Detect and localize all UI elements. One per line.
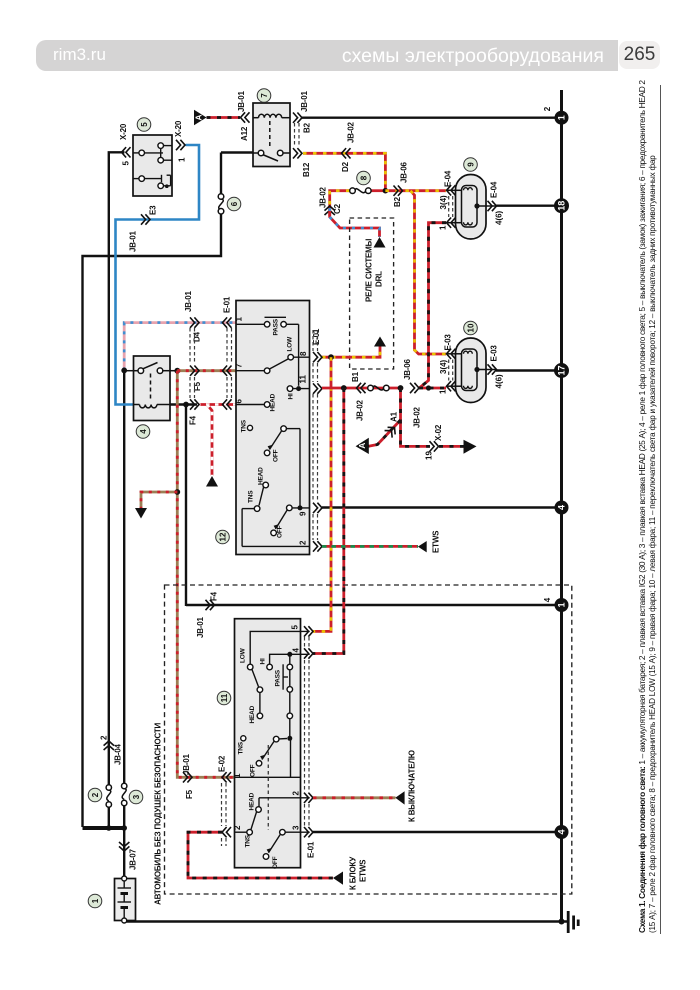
- relay 4 box: [134, 356, 171, 421]
- svg-text:HEAD: HEAD: [258, 467, 265, 485]
- wire: switch11 pin3 to bus: [313, 831, 562, 833]
- pin4 internal from HI: [270, 654, 310, 664]
- svg-text:HEAD: HEAD: [270, 393, 277, 411]
- wire JB-06 B2 to E-04 3(4) (red/yellow): [385, 189, 446, 192]
- battery 1: [115, 876, 136, 923]
- svg-text:2: 2: [543, 106, 552, 111]
- svg-text:ETWS: ETWS: [359, 859, 368, 882]
- svg-text:6: 6: [230, 201, 239, 206]
- svg-text:JB-02: JB-02: [319, 186, 328, 208]
- circled 1: [88, 894, 102, 908]
- wire diagonal branch to A arrow: [369, 420, 401, 446]
- right dashed bus column switch11: [305, 637, 310, 826]
- ignition internals: [133, 143, 172, 189]
- dashed box car without airbags: [165, 585, 572, 894]
- arrow to switch: [395, 791, 404, 804]
- svg-text:11: 11: [220, 693, 229, 702]
- svg-text:PASS: PASS: [275, 669, 282, 686]
- svg-text:OFF: OFF: [250, 764, 257, 777]
- svg-text:11: 11: [299, 374, 308, 383]
- svg-text:JB-02: JB-02: [347, 121, 356, 143]
- svg-text:17: 17: [557, 365, 567, 375]
- connector E-01 pin1 left: [223, 317, 232, 327]
- node disc 18: [554, 198, 569, 213]
- svg-text:2: 2: [233, 825, 242, 830]
- connector E-03 4(6): [488, 364, 497, 374]
- connector JB-02 C2: [325, 206, 335, 215]
- svg-text:TNS: TNS: [241, 419, 248, 432]
- svg-text:4(6): 4(6): [495, 374, 504, 389]
- svg-text:B12: B12: [302, 162, 311, 177]
- arrow to DRL relay (lower): [374, 337, 386, 347]
- PASS chain: [289, 654, 291, 664]
- E-01 right dashed bus column: [313, 330, 318, 540]
- svg-text:A1: A1: [390, 411, 399, 422]
- svg-text:F4: F4: [210, 591, 219, 601]
- wire bar to battery: [123, 828, 125, 877]
- svg-text:4: 4: [292, 648, 301, 653]
- svg-text:JB-01: JB-01: [237, 90, 246, 112]
- connector JB-02 A1: [385, 424, 399, 438]
- connector switch11 pin2 right: [304, 793, 313, 803]
- svg-text:2: 2: [100, 735, 109, 740]
- connector JB-01 B2: [293, 113, 302, 123]
- circled 8: [357, 171, 371, 185]
- svg-text:E-04: E-04: [444, 170, 453, 187]
- relay7 switch: [253, 150, 290, 161]
- wire: relay7 B2 to bus: [302, 116, 562, 118]
- wire JB-06 split down to E-03 3(4) (red/yellow): [411, 191, 447, 354]
- svg-text:JB-01: JB-01: [182, 753, 191, 775]
- svg-text:JB-01: JB-01: [196, 616, 205, 638]
- svg-text:A: A: [357, 443, 367, 449]
- svg-text:3: 3: [132, 794, 141, 799]
- node disc 17: [554, 363, 569, 378]
- svg-text:1: 1: [439, 225, 448, 230]
- svg-text:ETWS: ETWS: [432, 530, 441, 553]
- wire pin2left to ETWS block (red/black): [188, 832, 333, 878]
- connector E-03 3(4): [447, 349, 456, 359]
- svg-text:OFF: OFF: [277, 525, 284, 538]
- ground: [568, 911, 578, 933]
- svg-text:3(4): 3(4): [439, 359, 448, 374]
- svg-text:HEAD: HEAD: [249, 792, 256, 810]
- pin5 internal down to LOW: [250, 631, 310, 664]
- circled 12: [216, 530, 230, 544]
- svg-text:1: 1: [557, 115, 567, 120]
- blade LOW to common to HEAD: [252, 670, 259, 687]
- wire red/blue from relay4 junction up and right to E-01 pin 1: [124, 323, 236, 371]
- circled 6: [227, 197, 241, 211]
- svg-text:1: 1: [178, 157, 187, 162]
- arrow A (from X-02 area): [356, 438, 369, 454]
- circled 9: [464, 158, 478, 172]
- svg-text:DRL: DRL: [375, 271, 384, 287]
- svg-text:X-02: X-02: [434, 424, 443, 441]
- svg-text:JB-01: JB-01: [184, 290, 193, 312]
- connector JB-04 pin 2: [104, 741, 114, 750]
- connector E-01 pin8: [313, 352, 322, 362]
- wire E-04 pin1 branch (red/black): [419, 223, 446, 388]
- node disc 1 (top): [555, 111, 569, 125]
- E-01 left dashed bus column: [227, 328, 232, 398]
- svg-text:E-01: E-01: [223, 296, 232, 313]
- wire F4 to E-01 pin6 (red/white): [197, 403, 236, 406]
- wire X-02 to right arrow (red/black): [439, 445, 464, 448]
- battery junction bar: [83, 826, 125, 830]
- wire F4 branch down to arrow (red/white): [207, 405, 212, 477]
- svg-text:1: 1: [235, 317, 244, 322]
- connector E-02 pin1: [222, 772, 231, 782]
- svg-text:JB-07: JB-07: [129, 848, 138, 870]
- wire tan/red vertical relay4 to switch11 F5: [177, 371, 236, 778]
- fusible link 2: [106, 785, 111, 807]
- junction dot relay4 F5: [174, 368, 180, 374]
- svg-text:5: 5: [291, 625, 300, 630]
- fuse 6: [220, 153, 222, 195]
- caption line 1: [637, 80, 647, 933]
- switch box 11: [235, 619, 301, 868]
- svg-text:JB-02: JB-02: [413, 406, 422, 428]
- wire B12 to D2 to fuse8 (red/yellow): [303, 153, 385, 190]
- ignition switch box 5: [133, 135, 172, 196]
- svg-text:5: 5: [122, 161, 131, 166]
- arrow to DRL relay (upper): [374, 237, 386, 248]
- junction dot fuse8/JB-06: [383, 188, 389, 194]
- pin1 internal wire: [235, 776, 301, 778]
- connector E-01 pin9: [313, 503, 322, 513]
- svg-text:7: 7: [260, 93, 269, 98]
- arrow down left of switch12: [135, 508, 147, 519]
- wire relay4 to F5 to switch12 pin7 (tan/red): [177, 369, 236, 372]
- svg-text:12: 12: [219, 532, 228, 541]
- circled 5: [137, 118, 151, 132]
- caption line 2: [648, 155, 657, 933]
- connector E-04 3(4): [447, 185, 456, 195]
- connector switch11 pin4: [304, 648, 313, 658]
- wire red/yellow vertical pin8 to switch11 pin5: [313, 357, 331, 631]
- E-04 dashed bus: [449, 196, 453, 217]
- JB-01 dashed bus right of relay7: [295, 123, 300, 147]
- svg-text:HEAD: HEAD: [249, 705, 256, 723]
- fuse HEAD LOW on B1 row: [368, 385, 389, 391]
- E-02 dashed bus column: [222, 783, 227, 846]
- connector JB-01 E3 on blue wire: [141, 214, 150, 224]
- svg-text:X-20: X-20: [174, 120, 183, 137]
- svg-text:JB-02: JB-02: [356, 399, 365, 421]
- connector E-01 pin6 left: [223, 399, 232, 409]
- svg-text:LOW: LOW: [287, 336, 294, 352]
- page number box: [619, 41, 660, 69]
- svg-text:A: A: [194, 114, 204, 120]
- svg-text:B1: B1: [351, 371, 360, 382]
- switch12 internals: [236, 317, 310, 546]
- junction dot relay4 left: [121, 368, 127, 374]
- connector JB-06 B2: [394, 186, 403, 196]
- svg-text:3(4): 3(4): [439, 195, 448, 210]
- svg-text:E-02: E-02: [218, 755, 227, 772]
- connector E-01 pin7 left: [223, 366, 232, 376]
- connector JB-02 D2: [342, 148, 351, 158]
- junction dot branch: [174, 489, 180, 495]
- svg-text:D2: D2: [341, 161, 350, 172]
- svg-text:4: 4: [543, 597, 552, 602]
- wire JB-06 to E-03 pin1 (red/black): [419, 387, 446, 390]
- svg-text:19: 19: [425, 451, 434, 460]
- svg-text:C2: C2: [333, 203, 342, 214]
- TNS stub: [241, 736, 246, 741]
- connector JB-01 F5 lower: [183, 772, 192, 782]
- svg-text:B2: B2: [303, 122, 312, 133]
- circled 7: [257, 89, 271, 103]
- left vertical wire from y256 row: [83, 212, 222, 827]
- OFF switch upper: [273, 736, 279, 742]
- wire: E-03 4(6) to bus: [496, 369, 562, 371]
- mechanical link dashed: [267, 745, 269, 830]
- svg-text:LOW: LOW: [240, 647, 247, 663]
- headlight E-04 (9): [447, 175, 497, 240]
- svg-text:TNS: TNS: [248, 490, 255, 503]
- junction dot relay4 F4: [183, 402, 189, 408]
- wire pin2right to arrow (tan/red): [313, 796, 396, 799]
- svg-text:JB-01: JB-01: [300, 90, 309, 112]
- junction dot B1 right: [398, 385, 404, 391]
- svg-text:1: 1: [557, 602, 567, 607]
- svg-text:РЕЛЕ СИСТЕМЫ: РЕЛЕ СИСТЕМЫ: [365, 238, 374, 302]
- header title: [0, 45, 604, 68]
- arrow right of X-02: [464, 440, 477, 454]
- svg-text:E-03: E-03: [444, 334, 453, 351]
- blue wire ignition to relay4 coil: [116, 145, 200, 405]
- connector switch11 pin3: [304, 827, 313, 837]
- svg-text:8: 8: [360, 175, 369, 180]
- svg-text:3: 3: [292, 825, 301, 830]
- junction dot pin8: [328, 354, 334, 360]
- svg-text:E3: E3: [149, 205, 158, 215]
- connector E-01 pin11: [313, 383, 322, 393]
- connector X-20 pin 1: [176, 140, 185, 150]
- E-03 dashed bus: [449, 360, 453, 381]
- connector E-04 1: [447, 218, 456, 228]
- svg-text:D4: D4: [193, 331, 202, 342]
- wire pin11 to B1 fuse row (red): [322, 387, 401, 390]
- wire: switch12 pin9 to bus: [322, 506, 562, 508]
- connector X-20 pin 5: [122, 147, 131, 157]
- DRL system relay dashed box: [350, 218, 394, 369]
- switch box 12: [236, 301, 310, 555]
- svg-text:TNS: TNS: [238, 741, 245, 754]
- svg-text:JB-01: JB-01: [129, 230, 138, 252]
- circled 10: [464, 321, 478, 335]
- svg-text:8: 8: [299, 351, 308, 356]
- svg-text:4: 4: [139, 429, 148, 434]
- connector JB-02 B1: [357, 383, 366, 393]
- connector JB-01 A12: [241, 112, 250, 122]
- svg-text:2: 2: [299, 540, 308, 545]
- wire: JB-01 F4 row to bus: [186, 604, 562, 606]
- left vertical wire ignition feed: [109, 152, 125, 786]
- svg-text:9: 9: [299, 511, 308, 516]
- connector E-01 pin2: [313, 541, 322, 551]
- connector JB-01 F4 (lower row): [206, 600, 215, 610]
- OFF switch bottom: [280, 829, 286, 835]
- circled 2: [88, 788, 102, 802]
- arrow to ETWS block: [333, 872, 343, 885]
- svg-text:7: 7: [235, 363, 244, 368]
- wire A arrow to A12: [207, 116, 241, 119]
- svg-text:1: 1: [439, 389, 448, 394]
- svg-text:PASS: PASS: [273, 318, 280, 335]
- header site name: [53, 45, 106, 65]
- svg-text:10: 10: [467, 323, 476, 332]
- connector B12: [293, 148, 302, 158]
- connector JB-06 pin1 row: [410, 383, 419, 393]
- svg-text:К ВЫКЛЮЧАТЕЛЮ: К ВЫКЛЮЧАТЕЛЮ: [408, 750, 417, 822]
- svg-text:4: 4: [557, 829, 567, 834]
- svg-text:5: 5: [140, 122, 149, 127]
- fusible link 3: [122, 783, 127, 805]
- wire C2 to DRL arrow (red/blue): [330, 208, 380, 237]
- svg-text:F5: F5: [185, 789, 194, 799]
- relay4 switch: [124, 363, 177, 401]
- svg-text:X-20: X-20: [119, 123, 128, 140]
- svg-text:1: 1: [91, 898, 100, 903]
- svg-text:К БЛОКУ: К БЛОКУ: [349, 856, 358, 890]
- svg-text:OFF: OFF: [273, 449, 280, 462]
- circled 3: [129, 790, 143, 804]
- svg-text:JB-06: JB-06: [400, 161, 409, 183]
- svg-text:4: 4: [557, 505, 567, 510]
- JB-01 dashed bus column: [190, 328, 195, 398]
- svg-text:9: 9: [467, 162, 476, 167]
- left vertical wire relay4 feed lower part: [123, 370, 125, 784]
- connector E-04 4(6): [488, 201, 497, 211]
- wire red/black vertical pin11-branch to switch11 pin4: [313, 388, 344, 654]
- connector JB-01 F4: [190, 399, 199, 409]
- svg-text:JB-04: JB-04: [114, 743, 123, 765]
- svg-text:TNS: TNS: [245, 834, 252, 847]
- circled 4: [136, 425, 150, 439]
- svg-text:HI: HI: [260, 658, 267, 664]
- main ground bus vertical: [560, 90, 563, 922]
- svg-text:A12: A12: [240, 126, 249, 141]
- wire pin2 to ETWS arrow (red/green): [322, 545, 418, 548]
- wire: E-04 4(6) to bus: [496, 204, 562, 206]
- connector switch11 pin5: [304, 626, 313, 636]
- svg-text:6: 6: [235, 399, 244, 404]
- svg-text:B2: B2: [393, 196, 402, 207]
- caption rule: [660, 85, 661, 934]
- header bar: [36, 40, 618, 71]
- fuse 8: [350, 188, 371, 194]
- connector JB-01 D4: [190, 317, 199, 327]
- wire: vertical from F4 dot down to row: [185, 404, 187, 606]
- connector JB-01 F5: [190, 366, 199, 376]
- svg-text:18: 18: [557, 201, 567, 211]
- wire fuse8 row (red/yellow): [330, 191, 386, 216]
- svg-text:HI: HI: [288, 393, 295, 399]
- relay 7 box: [253, 103, 290, 167]
- node disc 4a: [555, 501, 569, 515]
- svg-text:АВТОМОБИЛЬ БЕЗ ПОДУШЕК БЕЗОПАС: АВТОМОБИЛЬ БЕЗ ПОДУШЕК БЕЗОПАСНОСТИ: [154, 722, 163, 905]
- node disc 1b: [555, 598, 569, 612]
- node disc 4b: [555, 825, 569, 839]
- connector JB-07: [119, 842, 129, 851]
- svg-text:JB-06: JB-06: [403, 358, 412, 380]
- wire: battery negative to bus: [124, 920, 568, 923]
- svg-text:E-04: E-04: [490, 181, 499, 198]
- junction dot pin11 branch: [341, 385, 347, 391]
- wire branch to down arrow (tan/red): [141, 492, 177, 508]
- HEAD/TNS switch lower: [259, 797, 310, 799]
- arrow below F4: [206, 476, 218, 487]
- arrow ETWS: [418, 541, 427, 552]
- svg-text:2: 2: [292, 791, 301, 796]
- svg-text:E-03: E-03: [490, 345, 499, 362]
- connector X-02 pin19: [430, 441, 439, 451]
- switch11 internals: [235, 631, 310, 859]
- svg-text:F4: F4: [189, 415, 198, 425]
- svg-text:4(6): 4(6): [495, 210, 504, 225]
- svg-text:2: 2: [91, 792, 100, 797]
- svg-text:E-01: E-01: [307, 841, 316, 858]
- relay4 coil: [134, 405, 171, 408]
- circled 11: [217, 691, 231, 705]
- relay7 coil: [253, 114, 290, 148]
- svg-text:1: 1: [233, 773, 242, 778]
- wire relay4 coil to F4: [170, 403, 197, 405]
- wire red/black B1 junction down to X-02 19: [401, 388, 431, 446]
- svg-text:OFF: OFF: [272, 856, 279, 869]
- connector E-02 pin2: [222, 827, 231, 837]
- arrow A (to relay header): [194, 110, 207, 125]
- headlight E-03 (10): [447, 338, 497, 403]
- junction ground node: [559, 919, 565, 925]
- connector E-03 1: [447, 381, 456, 391]
- wire E-01 pin8 to DRL arrow (red/yellow): [322, 347, 380, 358]
